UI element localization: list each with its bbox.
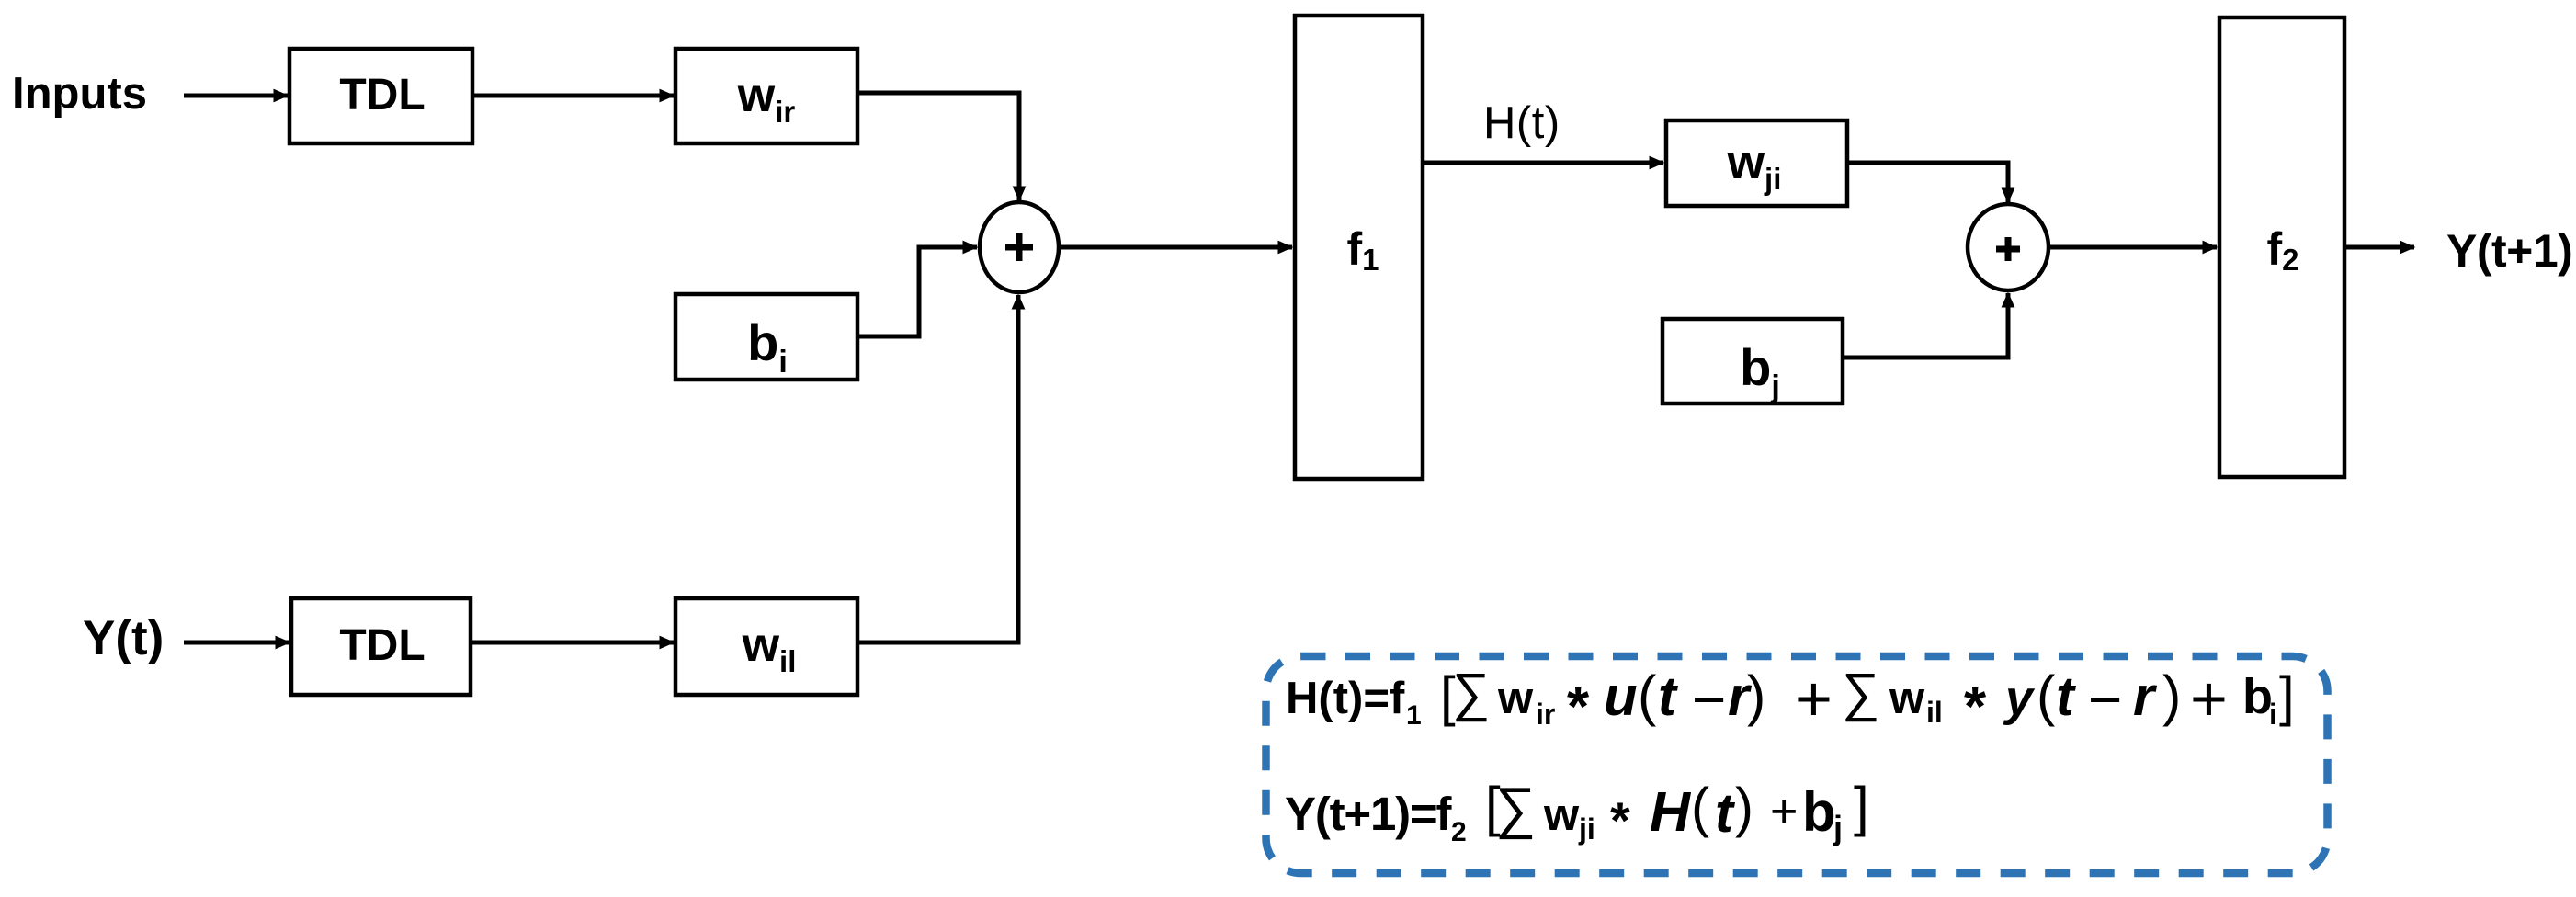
- svg-text:∑: ∑: [1495, 777, 1536, 840]
- equation line 2: Y(t+1)=f2 [ Sum w_ji * H(t) + b_j ]: [1285, 776, 1869, 849]
- svg-text:t: t: [2056, 665, 2077, 727]
- svg-text:w: w: [1889, 674, 1925, 723]
- svg-text:−: −: [1692, 666, 1726, 732]
- wire W12: TDL2 to Wil with arrowhead: [471, 641, 674, 645]
- svg-text:u: u: [1604, 665, 1638, 727]
- svg-text:Y(t): Y(t): [83, 611, 164, 665]
- block Wir (input weights): [675, 49, 857, 143]
- svg-text:(: (: [1691, 777, 1709, 838]
- wire W2: TDL1 to Wir with arrowhead: [472, 94, 674, 98]
- svg-text:b: b: [1802, 781, 1836, 843]
- svg-text:]: ]: [1854, 776, 1869, 837]
- svg-text:): ): [2162, 664, 2181, 727]
- svg-text:H(t): H(t): [1483, 98, 1560, 148]
- svg-text:∑: ∑: [1452, 663, 1490, 722]
- svg-text:TDL: TDL: [339, 621, 425, 670]
- svg-text:w: w: [1497, 674, 1534, 723]
- svg-text:i: i: [2269, 698, 2277, 731]
- block TDL1 (tapped delay line, input path): [289, 49, 472, 143]
- svg-text:): ): [1747, 664, 1765, 727]
- wire W11: Y(t) to TDL2 with arrowhead: [184, 641, 289, 645]
- svg-text:*: *: [1610, 791, 1630, 849]
- svg-text:il: il: [1926, 696, 1943, 729]
- wire W10: f2 to output Y(t+1), arrowhead: [2344, 245, 2414, 250]
- svg-text:*: *: [1964, 676, 1987, 739]
- svg-text:ji: ji: [1578, 812, 1595, 846]
- block bj (output bias): [1662, 319, 1843, 404]
- block f2 (output layer activation): [2219, 17, 2344, 477]
- block bi (hidden-layer bias): [675, 294, 857, 380]
- wire W6: f1 to Wji carrying H(t), arrowhead: [1423, 161, 1663, 165]
- svg-text:+: +: [1770, 785, 1798, 838]
- svg-text:*: *: [1567, 676, 1590, 739]
- svg-text:Inputs: Inputs: [12, 69, 147, 119]
- svg-text:+: +: [1795, 663, 1833, 734]
- svg-text:Y(t+1): Y(t+1): [2446, 225, 2572, 277]
- summing junction S2: [1968, 204, 2048, 290]
- wire W4: bi to summer S1 left (elbow, arrowhead): [857, 247, 977, 336]
- equation line 1: H(t)=f1 [ Sum w_ir * u(t-r) + Sum w_il * y(t-r) + b_i ]: [1286, 663, 2295, 739]
- svg-text:∑: ∑: [1842, 663, 1879, 722]
- svg-text:r: r: [2133, 665, 2158, 727]
- wire W9: summer S2 to f2 with arrowhead: [2048, 245, 2217, 250]
- wire W5: summer S1 to f1 with arrowhead: [1059, 245, 1292, 250]
- equation box (dashed blue rounded frame): [1266, 656, 2328, 873]
- svg-text:j: j: [1833, 809, 1843, 846]
- svg-text:]: ]: [2279, 665, 2295, 727]
- svg-text:TDL: TDL: [339, 71, 425, 119]
- svg-text:(: (: [2037, 664, 2055, 727]
- svg-text:t: t: [1715, 782, 1736, 844]
- svg-text:2: 2: [1451, 817, 1467, 847]
- svg-text:H(t)=f: H(t)=f: [1286, 674, 1405, 723]
- wire W13: Wil to summer S1 bottom (elbow, arrowhead): [857, 295, 1018, 642]
- svg-text:Y(t+1)=f: Y(t+1)=f: [1285, 788, 1452, 840]
- block Wji (output weights): [1666, 120, 1847, 206]
- svg-text:(: (: [1638, 664, 1656, 727]
- svg-text:ir: ir: [1536, 698, 1555, 731]
- wire W7: Wji to summer S2 top (elbow, arrowhead): [1847, 163, 2008, 202]
- wire W3: Wir to summer S1 top (elbow, arrowhead): [857, 93, 1019, 200]
- summing junction S1: [980, 202, 1059, 292]
- svg-text:): ): [1735, 777, 1753, 838]
- block TDL2 (tapped delay line, feedback path): [291, 598, 471, 695]
- wire W8: bj to summer S2 bottom (elbow, arrowhead): [1843, 293, 2008, 358]
- block Wil (feedback weights): [675, 598, 857, 695]
- svg-text:−: −: [2088, 666, 2122, 732]
- wire W1: Inputs to TDL1 with arrowhead: [184, 94, 288, 98]
- svg-text:1: 1: [1406, 700, 1422, 731]
- svg-text:w: w: [1543, 790, 1580, 840]
- svg-text:y: y: [2003, 671, 2036, 726]
- svg-text:t: t: [1658, 665, 1679, 727]
- svg-text:+: +: [2190, 663, 2228, 734]
- svg-text:H: H: [1650, 780, 1692, 843]
- block f1 (hidden layer activation): [1295, 16, 1423, 479]
